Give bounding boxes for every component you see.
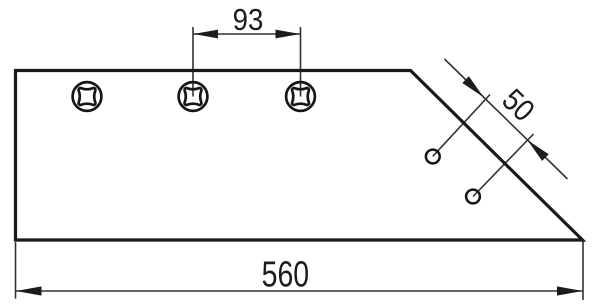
svg-text:93: 93 [233,3,264,38]
svg-text:560: 560 [262,253,309,294]
